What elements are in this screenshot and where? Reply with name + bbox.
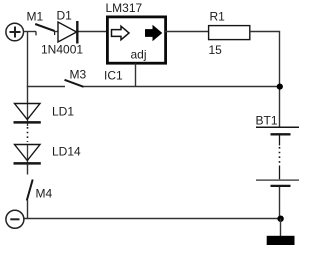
- ground symbol: [267, 236, 295, 245]
- terminal - (minus): [6, 210, 24, 228]
- wire M3 line: left rail to switch: [27, 86, 65, 88]
- battery short plate bottom: [271, 185, 291, 187]
- wire M3 to right rail with adj junction: [84, 86, 281, 88]
- wire bottom rail minus terminal to ground node: [24, 218, 281, 220]
- wire left rail down from node to LD1: [27, 32, 29, 104]
- switch M3: [65, 80, 84, 87]
- svg-text:LD14: LD14: [52, 145, 81, 159]
- wire ground stem: [280, 219, 282, 237]
- battery short plate top: [271, 133, 291, 135]
- svg-text:M3: M3: [70, 68, 87, 82]
- terminal + (plus): [6, 23, 24, 41]
- battery long plate top: [256, 126, 299, 128]
- svg-text:15: 15: [209, 43, 223, 57]
- svg-text:D1: D1: [57, 9, 73, 23]
- battery long plate bottom: [256, 179, 299, 181]
- node junction right rail / adj wire: [277, 84, 283, 90]
- wire from + terminal to M1: [24, 31, 37, 33]
- op-amp-block regulator IC1 LM317 body: [107, 17, 165, 63]
- svg-text:BT1: BT1: [256, 114, 278, 128]
- wire LD14 to M4: [27, 163, 29, 174]
- svg-text:IC1: IC1: [104, 69, 123, 83]
- svg-text:LM317: LM317: [106, 1, 143, 15]
- svg-text:M1: M1: [27, 10, 44, 24]
- wire adj pin down: [135, 63, 137, 86]
- wire IC1 output to R1: [165, 31, 209, 33]
- wire stem below top cell: [279, 136, 281, 146]
- LED LD1: [14, 104, 41, 127]
- switch M4: [27, 180, 33, 201]
- diode D1: [58, 21, 77, 44]
- input open arrow inside IC1: [112, 26, 130, 40]
- LED LD14: [14, 145, 41, 167]
- svg-text:adj: adj: [131, 48, 147, 62]
- wire bottom cell to ground node: [279, 187, 281, 219]
- dotted wire between cells: [279, 147, 281, 164]
- svg-text:1N4001: 1N4001: [41, 43, 83, 57]
- svg-text:M4: M4: [36, 187, 53, 201]
- wire D1 to IC1: [79, 31, 107, 33]
- wire stem above bottom cell: [279, 166, 281, 180]
- output filled arrow inside IC1: [146, 26, 162, 40]
- resistor R1: [209, 26, 250, 40]
- node junction bottom rail / battery / ground: [277, 216, 283, 222]
- dotted wire between LD1 and LD14: [27, 127, 29, 142]
- svg-text:R1: R1: [210, 10, 226, 24]
- wire R1 to right rail corner: [250, 32, 280, 127]
- wire M4 to bottom rail: [27, 200, 29, 219]
- battery BT1: [256, 127, 299, 218]
- wire M1 to D1: [55, 31, 58, 33]
- svg-text:LD1: LD1: [52, 105, 74, 119]
- switch M1: [35, 24, 54, 35]
